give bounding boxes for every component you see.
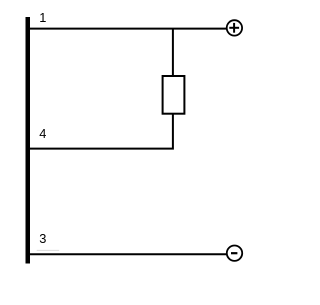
+ supply terminal circle: [227, 20, 242, 35]
wire (resistor bottom to wire 4): [30, 114, 173, 149]
svg-text:3: 3: [39, 231, 46, 246]
svg-text:4: 4: [39, 126, 46, 141]
faint underline under label 3: [37, 249, 60, 251]
svg-text:1: 1: [39, 10, 46, 25]
wire (vertical drop from wire 1 to resistor top): [172, 29, 174, 76]
potential rail (vertical bus bar): [26, 17, 31, 264]
- supply terminal circle: [227, 246, 242, 261]
+ sign: [229, 27, 239, 29]
- sign: [231, 252, 237, 254]
wire 3 (bottom horizontal from bus to - terminal): [30, 253, 227, 255]
resistor R1: [163, 76, 185, 114]
wire 1 (top horizontal from bus to + terminal): [30, 28, 227, 30]
